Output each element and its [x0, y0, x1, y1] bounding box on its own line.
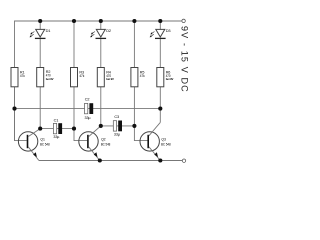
LED D3: [150, 28, 171, 38]
svg-text:47k: 47k: [79, 73, 84, 78]
svg-text:C3: C3: [114, 114, 119, 119]
wire coupling row C1 (Q1 collector to Q2 base): [40, 128, 74, 130]
capacitor C3: [113, 114, 122, 136]
svg-text:BC 548: BC 548: [101, 141, 111, 146]
resistor R6: [157, 68, 174, 87]
LED D1: [30, 28, 51, 38]
svg-text:bei 9V: bei 9V: [106, 77, 114, 81]
terminal 0V bottom right: [182, 159, 185, 162]
junction dot Q1 collector / C1: [38, 127, 42, 131]
transistor Q2: [79, 126, 110, 161]
transistor Q3: [140, 122, 171, 160]
svg-text:bei 9V: bei 9V: [46, 77, 54, 81]
capacitor C1: [53, 117, 62, 139]
resistor R3: [71, 68, 85, 87]
junction dot Q3 collector / C2: [158, 107, 162, 111]
wire coupling row C2 (Q3 collector to Q1 base): [15, 108, 161, 110]
wire bottom rail: [39, 160, 182, 162]
resistor R5: [131, 68, 145, 87]
svg-text:47k: 47k: [140, 73, 145, 78]
svg-text:47k: 47k: [20, 73, 25, 78]
wire top supply rail: [15, 21, 182, 141]
junction dot Q3 base / C3: [132, 124, 136, 128]
junction dot rail D2: [99, 19, 103, 23]
junction dot Q3 emitter: [158, 158, 162, 162]
svg-text:BC 548: BC 548: [161, 142, 171, 147]
LED D2: [90, 28, 111, 38]
wire collector column stage 1: [39, 21, 41, 129]
svg-text:D3: D3: [166, 28, 171, 33]
svg-text:9V - 15 V DC: 9V - 15 V DC: [180, 26, 190, 93]
junction dot rail R5: [132, 19, 136, 23]
svg-text:C2: C2: [85, 97, 90, 102]
svg-text:33µ: 33µ: [85, 115, 92, 120]
svg-text:BC 548: BC 548: [40, 141, 50, 146]
wire collector column stage 3: [159, 21, 161, 122]
wire base column stage 3: [134, 21, 147, 141]
resistor R4: [97, 68, 114, 87]
capacitor C2: [85, 97, 94, 120]
junction dot Q1 base / C2: [12, 107, 16, 111]
junction dot Q2 base / C1: [72, 127, 76, 131]
junction dot rail D1: [38, 19, 42, 23]
transistor Q1: [18, 129, 49, 161]
junction dot Q2 collector / C3: [99, 124, 103, 128]
junction dot Q2 emitter: [98, 158, 102, 162]
terminal +V top right: [182, 19, 185, 22]
svg-text:C1: C1: [54, 117, 59, 122]
svg-text:bei 9V: bei 9V: [166, 77, 174, 81]
junction dot rail R3: [72, 19, 76, 23]
resistor R2: [37, 68, 54, 87]
wire collector column stage 2: [100, 21, 102, 126]
label supply voltage 9V - 15 V DC: [180, 26, 190, 93]
resistor R1: [11, 68, 25, 87]
svg-text:D2: D2: [106, 28, 111, 33]
svg-text:33µ: 33µ: [53, 134, 60, 139]
svg-text:33µ: 33µ: [114, 131, 121, 136]
svg-text:D1: D1: [46, 28, 51, 33]
junction dot rail D3: [158, 19, 162, 23]
wire base column stage 2: [74, 21, 87, 141]
wire base column stage 1: [15, 87, 27, 141]
wire coupling row C3 (Q2 collector to Q3 base): [101, 125, 135, 127]
